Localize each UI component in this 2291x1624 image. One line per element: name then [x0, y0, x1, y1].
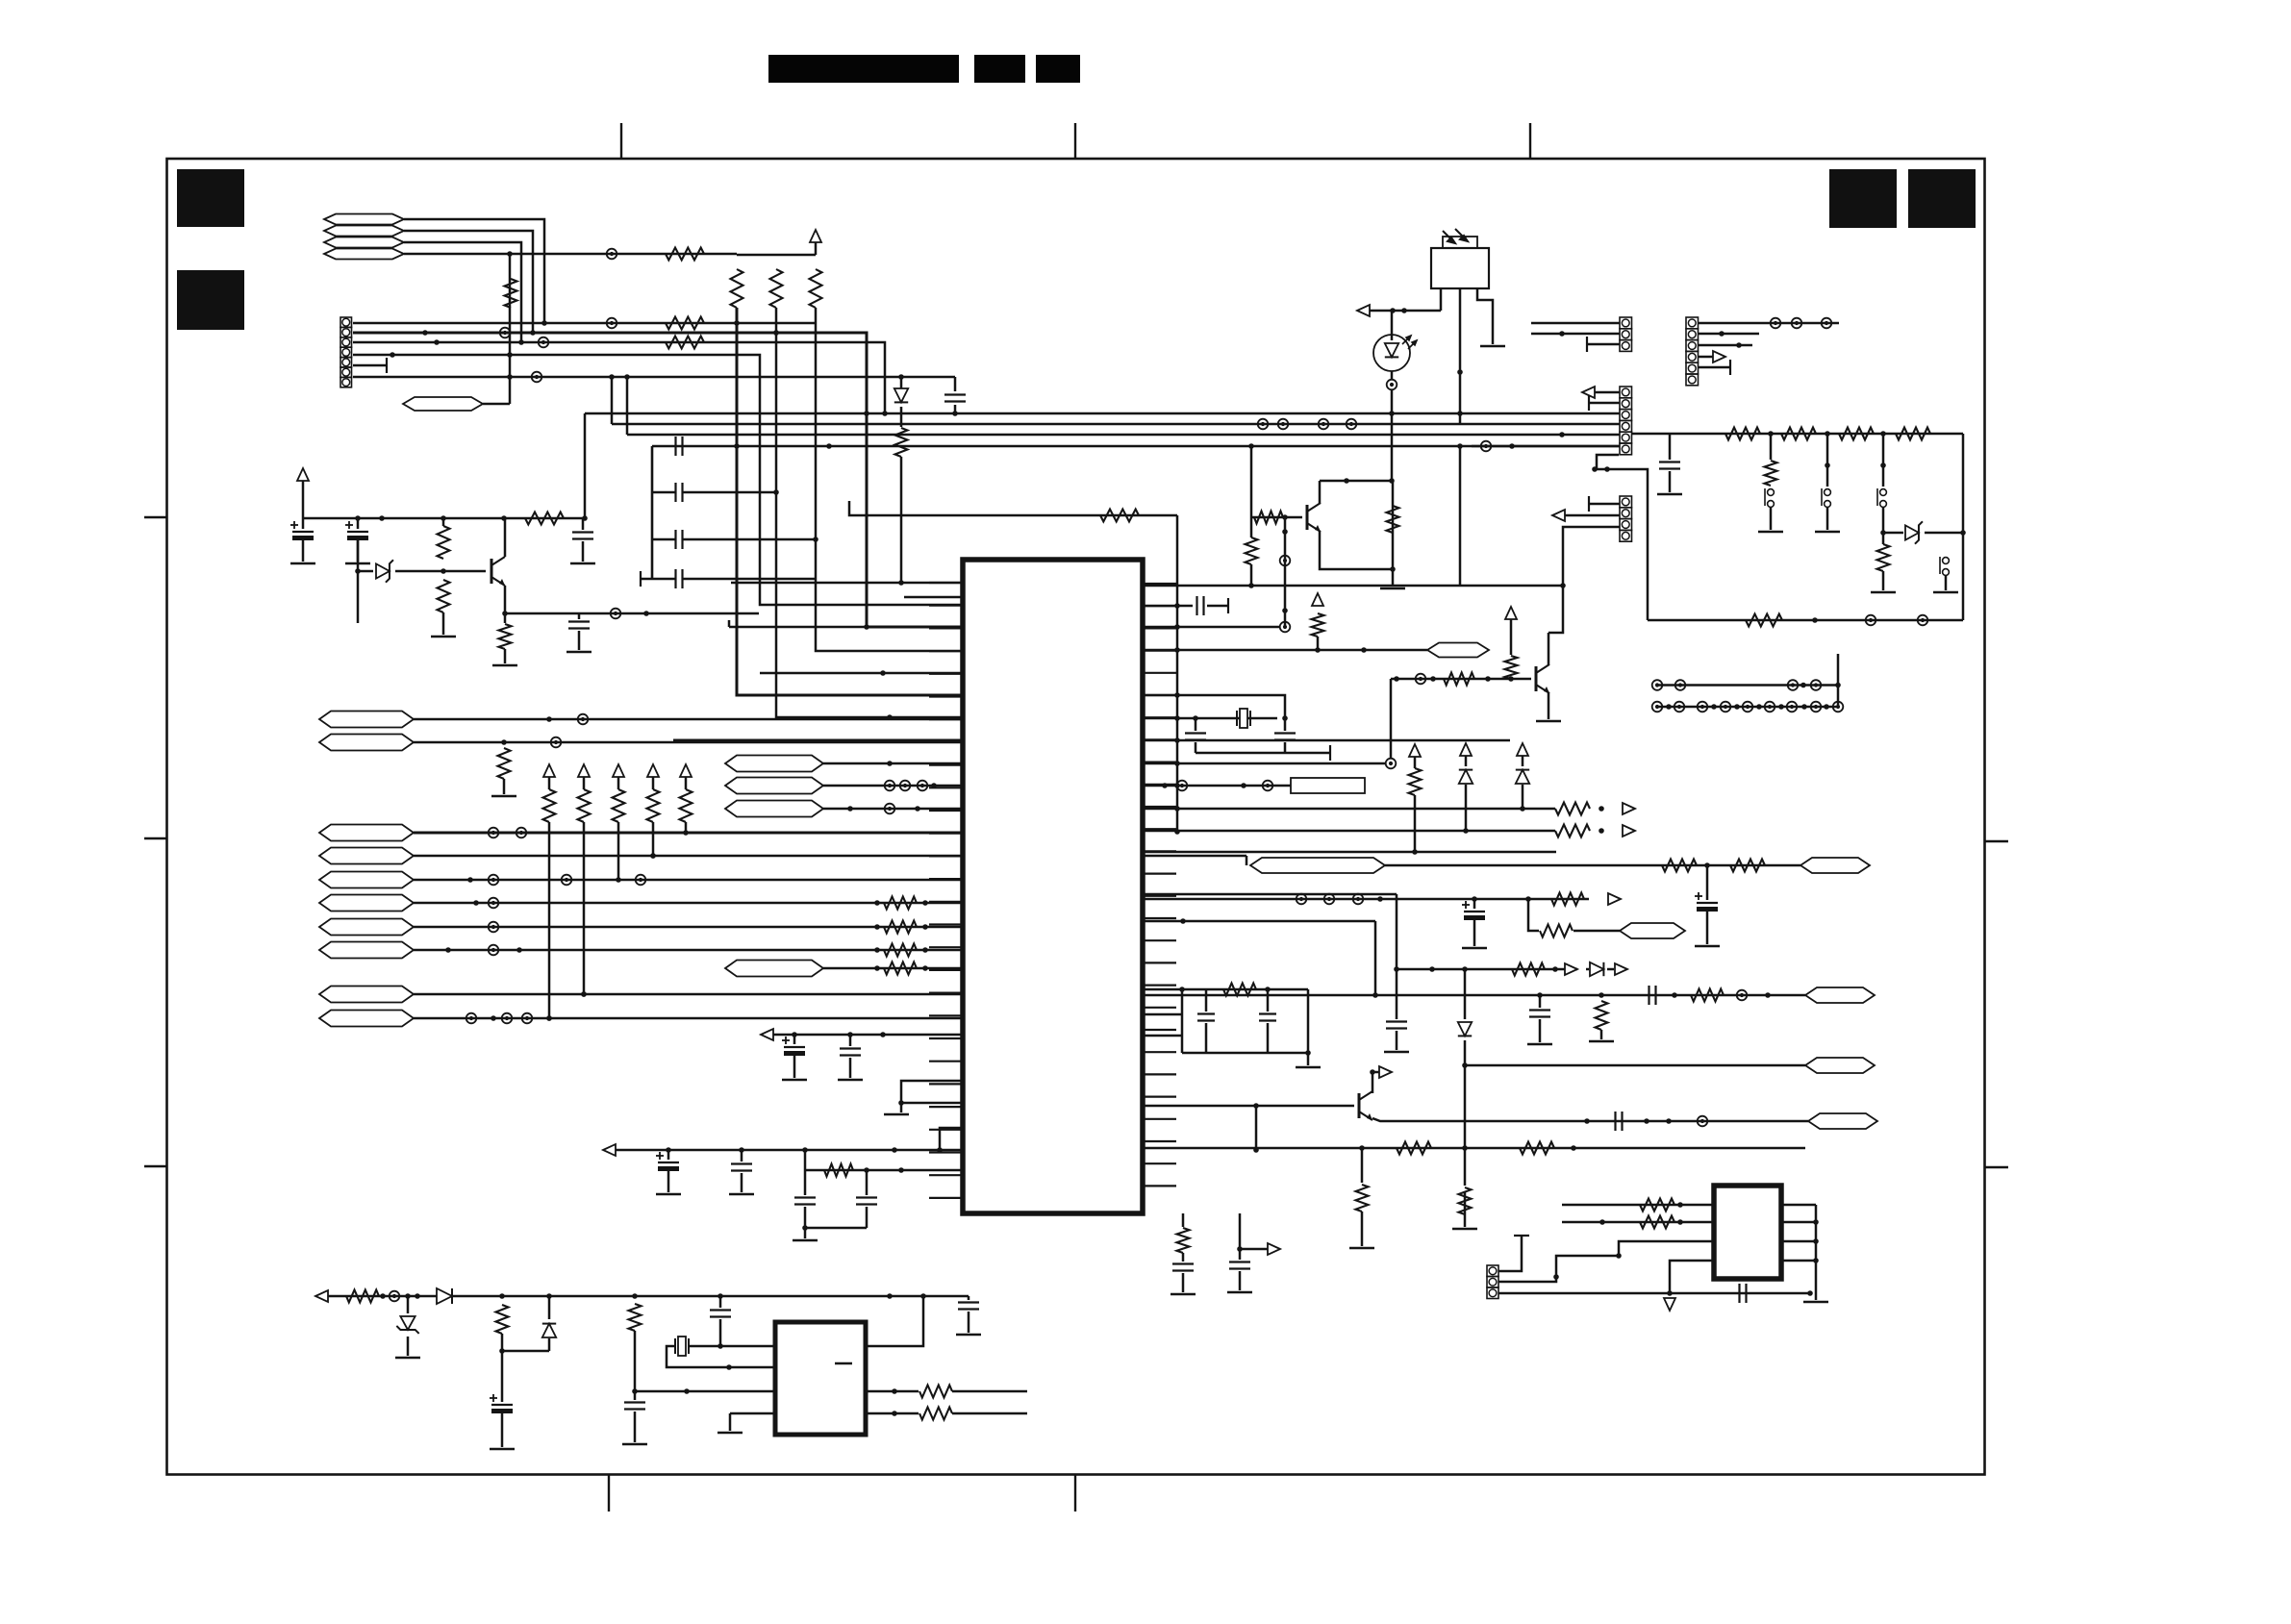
capacitor C62 [1649, 986, 1656, 1005]
resistor R72 vert [1361, 1148, 1364, 1183]
wire J3-3 right [1699, 344, 1752, 347]
capacitor C20 [582, 518, 585, 530]
junction KEY2 [650, 853, 656, 859]
pad J1-3 [539, 337, 549, 348]
resistor RC4 [1896, 428, 1930, 440]
capacitor CE2 electrolytic [357, 518, 360, 529]
crystal X2 [675, 1337, 689, 1356]
dot row2 [1801, 704, 1807, 710]
junction U3 in3 [1616, 1253, 1622, 1259]
junction row346 b [422, 330, 428, 336]
termination J1-5 [386, 358, 388, 373]
junction row1076 a [792, 1032, 797, 1037]
junction MID-C a [847, 806, 853, 812]
power arrow VCC2 [297, 468, 309, 481]
capacitor C52 [1274, 734, 1296, 740]
resistor R30 [824, 1164, 853, 1177]
junction V1224 row841 [1174, 806, 1180, 812]
wire pad row 1 [1657, 684, 1838, 687]
wire LED chain lower [1392, 481, 1395, 587]
pad chain bottom b [1918, 615, 1928, 626]
junction r935 c [1525, 896, 1531, 902]
frame tick bottom 1 [608, 1474, 610, 1512]
title block redaction 2 [974, 55, 1025, 83]
wire R91 [501, 1334, 504, 1402]
ground arrow U3 [1664, 1298, 1675, 1311]
signal arrow row1198 [603, 1144, 616, 1156]
junction rail f [887, 1293, 893, 1299]
resistor R64 [1730, 860, 1765, 872]
IC U1 body [963, 560, 1143, 1213]
wire bus MID1 [585, 412, 1620, 415]
signal arrow J5-2 [1552, 510, 1565, 521]
resistor R67 [1512, 963, 1545, 976]
junction bottom pin2 [1237, 1246, 1243, 1252]
wire J4 to loop [1597, 455, 1648, 620]
capacitor CE7 electrolytic [490, 1394, 513, 1413]
wire loop 1124 [901, 1081, 963, 1103]
junction MID-B [931, 783, 937, 788]
wire RC rail [1182, 1052, 1308, 1055]
junction chain a [1768, 431, 1774, 437]
junction J4 loop b [1604, 466, 1610, 472]
ground IR [1480, 345, 1505, 348]
junction V1336 a [1282, 529, 1288, 535]
net flag IN3 [319, 919, 414, 936]
resistor R95 [1640, 1199, 1674, 1212]
junction feeder [1457, 443, 1463, 449]
pad MID-B a [885, 781, 895, 791]
junction r841 [1599, 806, 1604, 812]
wire R92 tail [634, 1331, 637, 1391]
wire U2 vcc [866, 1296, 923, 1346]
wire J5-2 [1565, 514, 1620, 517]
junction emitter row [643, 611, 649, 616]
wire row 621 [904, 596, 963, 599]
net flag OUT-B [1805, 987, 1875, 1003]
resistor RV1 [543, 789, 556, 822]
pad IN2 [489, 898, 499, 909]
junction row1198 c [802, 1147, 808, 1153]
wire pad row 2 [1657, 706, 1838, 709]
dot row2 [1666, 704, 1672, 710]
wire J5-1 stub [1589, 503, 1620, 506]
wire MID-B [823, 785, 963, 787]
zener diode ZD2 [1905, 521, 1923, 543]
pullup rail [737, 254, 816, 257]
junction U3 bus a [1813, 1219, 1819, 1225]
wire U3 bottom [1670, 1292, 1810, 1295]
wire J5 feeder vert [1459, 446, 1462, 586]
wire tap 3 [1882, 434, 1885, 487]
junction r1194 b [1571, 1145, 1576, 1151]
junction row356 b [434, 339, 440, 345]
junction base feeder [1248, 443, 1254, 449]
signal arrow row1076 [761, 1029, 773, 1040]
junction Q2 base [1253, 1103, 1259, 1109]
pad r817 b [1177, 781, 1188, 791]
junction zener node [1960, 530, 1966, 536]
IC U3 body [1714, 1186, 1781, 1279]
resistor R69 [1691, 989, 1724, 1002]
pad MID2 d [1347, 419, 1357, 430]
wire J5-3 route [1548, 527, 1620, 633]
capacitor C30 [849, 1035, 852, 1046]
wire D3 tail [1522, 785, 1524, 809]
wire tap 1 [1770, 434, 1773, 460]
junction U3 bus d [1807, 1290, 1813, 1296]
junction CL2 [773, 489, 779, 495]
wire zener to base [395, 570, 486, 573]
junction MID3 [1559, 432, 1565, 437]
IC U1 right pin stubs [1143, 584, 1176, 1186]
junction V1224 row747 [1174, 715, 1180, 721]
junction J5-3 [1560, 583, 1566, 588]
capacitor CL4 [676, 569, 683, 588]
junction row706 c [1485, 676, 1491, 682]
junction IN4 c [516, 947, 522, 953]
pad SDA [551, 737, 562, 748]
ground U2 [718, 1432, 743, 1435]
pad row2 [1765, 702, 1775, 712]
wire MID-A [823, 762, 963, 765]
resistor R90 [346, 1290, 379, 1303]
wire tap tail 2 [1826, 508, 1829, 530]
wire power rail 1348 [328, 1295, 969, 1298]
ground Q1 [1380, 587, 1405, 590]
wire row1447 link [635, 1390, 775, 1393]
wire power rail 539 [303, 517, 583, 520]
junction J4 loop a [1592, 466, 1598, 472]
wire U2 pin4 gnd [729, 1413, 732, 1431]
wire RV2 [583, 777, 586, 789]
wire R21 top [442, 518, 445, 526]
corner redaction top-right B [1908, 169, 1976, 228]
junction row700 [880, 670, 886, 676]
connector J5 [1620, 496, 1632, 541]
dot row2 [1824, 704, 1829, 710]
wire r817 [1143, 785, 1291, 787]
junction chain c [1880, 431, 1886, 437]
power arrow VQ3 [1505, 607, 1517, 619]
frame tick top 1 [620, 123, 622, 159]
frame tick top 3 [1529, 123, 1531, 159]
capacitor C65 [1205, 989, 1208, 1012]
pad KEY1 b [516, 828, 527, 838]
wire KEY2 [414, 855, 963, 858]
wire VCC2 stem [302, 481, 305, 518]
wire KEY1 [414, 832, 963, 835]
diode D3 [1516, 770, 1529, 784]
power arrow VP5 [680, 764, 692, 777]
power arrow VP1 [543, 764, 555, 777]
resistor R65 [1551, 893, 1584, 906]
pad KEY1 a [489, 828, 499, 838]
resistor RL939 [884, 897, 917, 910]
pad r1035 [1737, 990, 1748, 1001]
resistor R94 [919, 1408, 952, 1420]
resistor R45 [1505, 656, 1518, 679]
wire R63 tap [1706, 865, 1709, 900]
wire xtal gnd rail [1196, 752, 1330, 755]
resistor RP3 [810, 269, 822, 308]
wire AUX [483, 403, 510, 406]
net flag KEY2 [319, 848, 414, 864]
junction rail b [379, 515, 385, 521]
junction X2 loop [726, 1364, 732, 1370]
wire Q0 emitter [504, 586, 507, 613]
junction Q2 c [1370, 1069, 1375, 1075]
connector J2 [1620, 317, 1632, 351]
pad IN1 d [636, 875, 646, 886]
ground loop [900, 1103, 903, 1112]
resistor RL964 [884, 921, 917, 934]
wire Q1 base [1251, 516, 1302, 519]
wire IR right leg [1477, 288, 1493, 344]
junction MID-A [887, 761, 893, 766]
corner redaction top-right A [1829, 169, 1897, 228]
resistor R75 [1223, 984, 1256, 996]
corner redaction top-left A [177, 169, 244, 227]
wire J1-4 bus [353, 355, 963, 605]
wire diode up link [502, 1350, 549, 1353]
wire SCL [414, 718, 963, 721]
power arrow VCC1 [810, 230, 821, 242]
title block redaction 3 [1036, 55, 1080, 83]
pad row2 [1652, 702, 1663, 712]
resistor R63 [1662, 860, 1697, 872]
wire X2 right [689, 1345, 775, 1348]
wire VCC1 stem [815, 242, 818, 255]
resistor RV5 [680, 789, 692, 822]
resistor R23 [504, 613, 507, 623]
wire Q3 emitter [1548, 692, 1550, 719]
wire J4-6 [1472, 445, 1620, 448]
wire 1452 down [1396, 894, 1398, 1019]
pad IN1 b [489, 875, 499, 886]
wire to flag 968 [1573, 930, 1620, 933]
junction U3 in2 a [1599, 1219, 1605, 1225]
wire IC bottom pin 1 [1182, 1213, 1185, 1227]
wire Q1 node [1391, 413, 1394, 481]
junction AV1 [581, 991, 587, 997]
junction chain bottom [1812, 617, 1818, 623]
junction V1224 row817 [1174, 783, 1180, 788]
capacitor C66 [1267, 989, 1270, 1012]
capacitor CL1 [676, 437, 683, 456]
wire bus MID4 [652, 445, 1620, 448]
wire J3-4 right [1699, 356, 1713, 359]
wire F1 to vertical [404, 219, 544, 323]
junction IN2 [473, 900, 479, 906]
resistor R20 [525, 512, 564, 525]
pad row2 [1743, 702, 1753, 712]
resistor R70 [1397, 1142, 1431, 1155]
frame tick right 1 [1984, 840, 2008, 842]
junction F4 row356 [518, 339, 524, 345]
resistor R60 [1555, 803, 1590, 815]
frame tick bottom 2 [1074, 1474, 1076, 1512]
wire RC right [1307, 989, 1310, 1053]
pad AV2 a [466, 1013, 477, 1024]
wire CE2 node down [357, 540, 360, 571]
junction J4-6 [1509, 443, 1515, 449]
junction V1224 row652 [1174, 624, 1180, 630]
wire chain right down [1962, 434, 1965, 620]
capacitor C-E1 [954, 377, 957, 391]
wire row 606 [731, 582, 963, 585]
junction rail 1348 b [405, 1293, 411, 1299]
junction SDA [501, 739, 507, 745]
ground R73 [1464, 1214, 1467, 1227]
junction r1029 a [1179, 987, 1185, 992]
net flag MID-D [725, 961, 823, 977]
wire IN1 [414, 879, 963, 882]
zener diode ZD3 [396, 1316, 418, 1334]
junction tap2 [1825, 462, 1830, 468]
junction row1198 r [937, 1147, 943, 1153]
wire IN4 [414, 949, 963, 952]
net flag MID-A [725, 756, 823, 772]
diode D5 [1458, 1022, 1472, 1036]
wire J3-5 stub [1699, 366, 1730, 369]
wire J2-2 left [1531, 333, 1620, 336]
wire row1076 [773, 1034, 963, 1037]
termination J6-1 [1514, 1235, 1529, 1237]
wire IN3 [414, 926, 963, 929]
net flag SND [1620, 923, 1685, 938]
capacitor C63 [1616, 1112, 1623, 1131]
junction D5 row [1462, 1062, 1468, 1068]
capacitor C72 [634, 1391, 637, 1400]
capacitor CE6 electrolytic [1473, 899, 1476, 909]
junction IR mid [1457, 369, 1463, 375]
pad row2 [1833, 702, 1844, 712]
pad MID-B c [918, 781, 928, 791]
dot row2 [1778, 704, 1784, 710]
wire row 700 [760, 672, 963, 675]
transistor Q1 [1307, 503, 1321, 532]
capacitor C61 [1539, 995, 1542, 1008]
wire V1336 [1284, 517, 1287, 627]
termination J4-2 [1588, 395, 1590, 411]
wire IN2 [414, 902, 963, 905]
wire SW4 stub [1945, 576, 1948, 590]
switch SW2 [1822, 488, 1830, 507]
junction r1035 c [1765, 992, 1771, 998]
connector J1 [340, 317, 352, 387]
net flag SDA [319, 735, 414, 751]
junction emitter [502, 611, 508, 616]
wire MID2 riser [611, 377, 614, 424]
signal arrow bottom [1268, 1243, 1280, 1255]
pad emitter row [611, 609, 621, 619]
resistor R80 [1177, 1228, 1190, 1253]
junction r1008 b [1552, 966, 1558, 972]
junction U3 in1 [1677, 1202, 1683, 1208]
wire r841 [1143, 808, 1555, 811]
junction r935 a [1377, 896, 1383, 902]
wire tap tail 1 [1770, 508, 1773, 530]
junction J2-2 [1559, 331, 1565, 337]
wire IC bottom pin 2 [1239, 1213, 1242, 1260]
wire RV5 [685, 777, 688, 789]
wire U2 out1b [952, 1390, 1027, 1393]
junction F4 row336 [541, 320, 547, 326]
junction base node [441, 568, 446, 574]
wire D2 tail [1465, 785, 1468, 831]
wire xtal caps left [1195, 718, 1197, 731]
wire zener link [1883, 532, 1903, 535]
wire D8 chain tail [900, 457, 903, 583]
resistor R41 [1254, 512, 1283, 524]
junction J1-6 b [624, 374, 630, 380]
wire U2 pin4 [730, 1412, 775, 1415]
power arrow VD2 [1517, 743, 1528, 756]
junction V1336 b [1282, 608, 1288, 613]
pad MID-B b [900, 781, 911, 791]
capacitor CE3 electrolytic [793, 1035, 796, 1044]
capacitor CL2 [676, 483, 683, 502]
resistor R93 [919, 1386, 952, 1398]
wire SDA [414, 741, 963, 744]
wire U3 in3 [1619, 1241, 1714, 1256]
wire r1029 [1143, 988, 1308, 991]
resistor R22 [438, 580, 450, 612]
junction IN1 a [467, 877, 473, 883]
wire D5 tail [1464, 1040, 1467, 1148]
pad MID-C b [885, 804, 895, 814]
junction row1 [1800, 683, 1806, 688]
junction row746 [887, 714, 893, 720]
capacitor C71 [1229, 1262, 1250, 1269]
wire U3 right bus [1781, 1204, 1816, 1207]
junction Q1 base [1282, 514, 1288, 520]
wire Q1 collector rail [1320, 480, 1392, 483]
pad AV2 d [522, 1013, 533, 1024]
junction r817 a [1162, 783, 1168, 788]
wire row1198 [616, 1149, 963, 1152]
pad chain bottom a [1866, 615, 1876, 626]
capacitor C33 [866, 1170, 869, 1195]
junction J3-2 [1719, 331, 1725, 337]
frame tick top 2 [1074, 123, 1076, 159]
power arrow VP3 [613, 764, 624, 777]
wire xtal caps right [1284, 718, 1287, 731]
wire row1198 riser [940, 1128, 963, 1150]
LED D1 body [1373, 335, 1410, 371]
junction row652 left [864, 624, 869, 630]
wire arrow branch [1240, 1248, 1268, 1251]
wire RP3 tail / staircase to IC [816, 308, 818, 651]
wire AV2 [414, 1017, 963, 1020]
termination CL4 [640, 571, 642, 587]
wire pad rows link [1837, 654, 1840, 707]
signal arrow D4 [1615, 963, 1627, 975]
junction J1-4 [390, 352, 395, 358]
junction U3 bus b [1813, 1238, 1819, 1244]
wire r1008 [1397, 968, 1577, 971]
wire r958 [1143, 920, 1375, 923]
wire MID-C [823, 808, 963, 811]
power arrow V676 [1312, 593, 1323, 606]
wire IR mid leg [1459, 288, 1462, 423]
pad LED cathode [1391, 371, 1394, 380]
diode D8 [900, 377, 903, 388]
wire IR out [1370, 310, 1441, 312]
wire J1-3 bus [353, 342, 885, 413]
resistor R-SDA pulldown [498, 748, 511, 779]
